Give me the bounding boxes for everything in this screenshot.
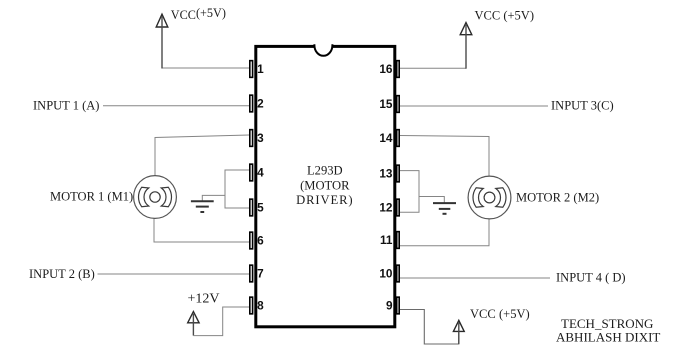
svg-text:14: 14 [379,131,393,145]
svg-text:+12V: +12V [188,291,220,306]
power arrow VCC (+5V) bottom-right [453,320,464,331]
wire pin 14 to motor M2 top [400,136,489,177]
svg-text:(+5V): (+5V) [499,307,530,321]
svg-text:5: 5 [257,201,264,215]
pin 10 [397,265,400,282]
wire INPUT 2 to pin 7 [98,273,250,275]
pin 8 [250,297,253,314]
wire ground branch right [419,197,444,203]
svg-text:15: 15 [379,97,393,111]
svg-text:VCC: VCC [171,8,196,22]
wire pin13-pin12 connector [400,171,419,213]
wire +12V arrow shaft [192,314,194,336]
svg-text:9: 9 [386,299,393,313]
wire VCC3 arrow shaft [458,323,460,345]
svg-text:L293D: L293D [307,164,343,178]
motor M2 right brush arc [496,188,506,207]
ground GND2 bar 1 [433,202,456,204]
wire VCC2 vertical riser [465,25,467,69]
pin 9 [397,297,400,314]
wire +12V to pin 8 [193,307,249,336]
svg-text:ABHILASH DIXIT: ABHILASH DIXIT [556,330,660,345]
pin 1 [250,61,253,78]
motor M1 right brush arc [161,187,171,206]
svg-text:11: 11 [380,233,393,247]
wire motor M2 bottom to pin 11 [400,219,489,246]
svg-text:10: 10 [379,267,393,281]
svg-text:INPUT 2 (B): INPUT 2 (B) [29,267,95,281]
svg-text:2: 2 [257,97,264,111]
motor M2 rotor circle [484,192,495,203]
wire VCC1 vertical riser [161,17,163,69]
ground GND1 bar 1 [191,200,214,202]
svg-text:MOTOR 1 (M1): MOTOR 1 (M1) [50,190,133,204]
svg-text:(MOTOR: (MOTOR [300,178,350,192]
wire INPUT 3 to pin 15 [400,105,548,107]
svg-text:VCC: VCC [470,307,496,321]
svg-text:7: 7 [257,267,264,281]
wire ground branch left [202,195,225,200]
motor M1 outer circle [134,176,177,219]
svg-text:DRIVER): DRIVER) [296,193,353,207]
pin 12 [397,199,400,216]
wire pin 9 to VCC supply (bottom-right) [400,310,459,345]
power arrow VCC (+5V) top-left [156,14,168,27]
wire motor M1 bottom to pin 6 [154,218,249,242]
pin 3 [250,130,253,147]
svg-text:MOTOR 2 (M2): MOTOR 2 (M2) [516,190,599,204]
wire pin1 to VCC supply (top-left) [162,67,249,69]
svg-text:16: 16 [379,62,393,76]
svg-text:13: 13 [379,167,393,181]
pin 11 [397,232,400,249]
ground GND2 bar 3 [443,213,447,215]
ground GND1 bar 2 [196,206,209,208]
IC U1 L293D body [256,46,395,326]
motor M2 left brush arc [473,188,483,207]
wire pin 3 to motor M1 top [155,135,249,177]
pin 5 [250,199,253,216]
ground GND1 bar 3 [200,211,204,213]
motor M1 rotor circle [150,192,160,202]
svg-text:1: 1 [257,62,264,76]
pin 15 [397,96,400,113]
power arrow VCC (+5V) top-right [460,23,472,35]
motor M2 outer circle [468,176,511,219]
pin 2 [250,95,253,112]
pin 7 [250,265,253,282]
svg-text:6: 6 [257,234,264,248]
pin 6 [250,232,253,249]
svg-text:(+5V): (+5V) [196,6,226,20]
svg-text:8: 8 [257,299,264,313]
power arrow +12V [188,312,199,323]
pin 4 [250,164,253,181]
pin 14 [397,130,400,147]
svg-text:INPUT 4 ( D): INPUT 4 ( D) [556,271,626,285]
svg-text:INPUT 1 (A): INPUT 1 (A) [33,99,99,113]
pin 16 [397,61,400,78]
pin 13 [397,165,400,182]
svg-text:VCC (+5V): VCC (+5V) [475,9,534,23]
ground GND2 bar 2 [439,208,451,210]
svg-text:12: 12 [379,201,393,215]
svg-text:3: 3 [257,131,264,145]
svg-text:INPUT 3(C): INPUT 3(C) [551,99,614,113]
wire pin16 to VCC supply (top-right) [400,67,466,69]
wire pin4-pin5 connector [225,170,249,208]
svg-text:4: 4 [257,166,264,180]
motor M1 left brush arc [138,187,148,206]
wire INPUT 4 to pin 10 [400,277,550,279]
IC U1 orientation notch [314,44,332,56]
wire INPUT 1 to pin 2 [103,105,249,107]
